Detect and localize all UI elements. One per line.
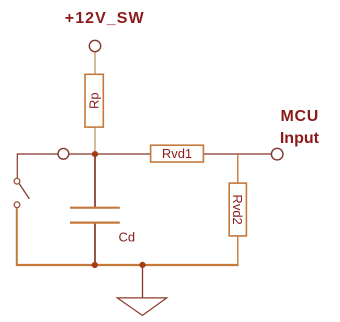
svg-text:Input: Input xyxy=(280,130,320,147)
wire bottom ground net horizontal xyxy=(17,264,239,266)
wire capacitor upper vertical xyxy=(94,154,96,208)
svg-text:+12V_SW: +12V_SW xyxy=(65,10,145,27)
capacitor Cd top plate xyxy=(70,207,120,209)
svg-text:Rvd2: Rvd2 xyxy=(230,194,245,224)
junction node at ground tap xyxy=(139,262,145,268)
switch SW top contact circle xyxy=(14,178,20,184)
resistor Rp lead top xyxy=(94,52,96,75)
resistor Rvd2 lead bottom xyxy=(237,236,239,265)
wire switch riser from corner to switch top xyxy=(16,153,18,178)
svg-text:Cd: Cd xyxy=(119,230,136,245)
wire bottom-left vertical from switch to ground net xyxy=(16,208,18,266)
svg-text:Rp: Rp xyxy=(87,92,102,109)
svg-text:MCU: MCU xyxy=(281,108,320,125)
capacitor Cd bottom plate xyxy=(70,222,120,224)
terminal MCU Input circle xyxy=(271,148,283,160)
resistor Rvd2 body xyxy=(229,183,246,236)
switch SW blade xyxy=(19,184,29,199)
wire capacitor lower vertical xyxy=(94,223,96,265)
wire main horizontal net at y=154 xyxy=(17,153,271,155)
resistor Rp lead bottom xyxy=(94,127,96,154)
resistor Rvd2 lead top xyxy=(237,154,239,184)
ground symbol xyxy=(117,298,167,316)
junction node at Rp/cap/main wire xyxy=(92,151,98,157)
resistor Rvd1 body xyxy=(151,145,204,162)
terminal +12V_SW circle xyxy=(89,40,100,51)
wire ground tap vertical xyxy=(142,265,144,298)
svg-text:Rvd1: Rvd1 xyxy=(162,146,192,161)
switch SW bottom contact circle xyxy=(14,202,20,208)
resistor Rp body xyxy=(85,74,103,127)
terminal circle on left wire xyxy=(58,148,69,159)
junction node at cap bottom on ground net xyxy=(92,262,98,268)
